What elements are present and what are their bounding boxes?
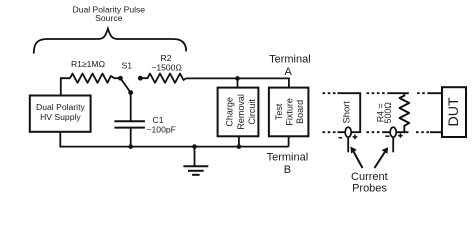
svg-text:R1≥1MΩ: R1≥1MΩ (71, 59, 106, 69)
label: Dual Polarity Pulse Source (72, 4, 145, 23)
svg-text:Removal: Removal (236, 94, 246, 130)
svg-text:Terminal: Terminal (267, 151, 309, 163)
wire: dashed lead top (test fixture to short) (323, 92, 338, 94)
wire: DUT bottom lead (430, 131, 442, 133)
svg-text:~1500Ω: ~1500Ω (151, 63, 182, 73)
brace (curly bracket under title) (34, 29, 186, 53)
wire: dashed top (short to R4) (367, 92, 391, 94)
current probe (right) (385, 127, 402, 152)
node: rail to charge removal (235, 76, 240, 81)
box: Charge Removal Circuit (218, 88, 259, 137)
label: Current Probes with arrows (350, 147, 388, 195)
svg-text:HV Supply: HV Supply (40, 112, 81, 122)
resistor R4 (376, 93, 410, 132)
wire: dashed top (R4 to DUT) (404, 92, 409, 94)
svg-text:Charge: Charge (225, 97, 235, 127)
svg-text:Probes: Probes (352, 183, 387, 195)
svg-text:B: B (284, 164, 291, 176)
svg-text:Terminal: Terminal (269, 54, 311, 66)
svg-text:Test: Test (274, 103, 284, 120)
arrow to left probe (354, 152, 363, 169)
wire: HV supply top to R1 (61, 78, 70, 95)
wire: dashed lead bottom (test fixture to probe) (323, 131, 338, 133)
wire: charge removal box to bottom rail (238, 136, 240, 146)
wire: dashed bottom (short to R4 probe) (367, 131, 384, 133)
arrow to right probe (375, 152, 386, 168)
wire: rail down into charge removal box (237, 78, 239, 87)
svg-text:Current: Current (351, 171, 388, 183)
svg-text:Fixture: Fixture (284, 98, 294, 126)
wire: test fixture box to bottom rail (288, 136, 290, 146)
svg-text:Short: Short (340, 101, 351, 124)
node: ground on bottom rail (192, 144, 197, 149)
wire: DUT top lead (430, 92, 442, 94)
short (shorting bar) (338, 93, 361, 132)
resistor R2 (140, 74, 186, 83)
wire: top rail to Terminal A (186, 78, 289, 87)
current probe (left) (339, 127, 358, 152)
capacitor C1 (114, 115, 175, 146)
box: Dual Polarity HV Supply (30, 96, 91, 132)
wire: bottom rail (60, 132, 288, 147)
svg-text:Circuit: Circuit (247, 99, 257, 125)
svg-text:~100pF: ~100pF (147, 125, 176, 135)
svg-text:S1: S1 (122, 61, 133, 71)
wire: switch pole down to C1 (130, 93, 132, 121)
node: C1 on bottom rail (128, 144, 133, 149)
svg-text:Source: Source (95, 13, 122, 23)
switch S1 (118, 61, 143, 95)
svg-text:Dual Polarity: Dual Polarity (36, 102, 85, 112)
wire: dashed bottom (R4 to DUT) (416, 131, 430, 133)
svg-text:Board: Board (295, 100, 305, 124)
resistor R1 (70, 74, 120, 83)
svg-text:500Ω: 500Ω (383, 102, 393, 124)
svg-text:R2: R2 (161, 53, 172, 63)
box: DUT (442, 87, 466, 137)
node: charge removal on bottom rail (237, 144, 242, 149)
svg-text:A: A (285, 66, 293, 78)
label: Terminal B (267, 151, 309, 176)
box: Test Fixture Board (269, 88, 309, 137)
svg-text:DUT: DUT (446, 97, 462, 126)
label: Terminal A (269, 54, 311, 79)
ground (183, 147, 208, 175)
